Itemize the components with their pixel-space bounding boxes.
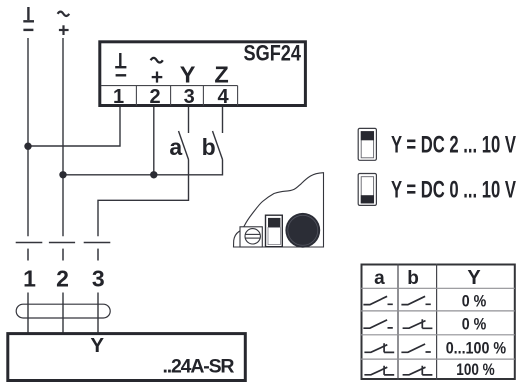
cable sheath oval [16, 304, 110, 318]
actuator knob [285, 213, 320, 248]
switch closed icon row3 col a [364, 343, 394, 352]
svg-text:SGF24: SGF24 [244, 41, 302, 66]
terminal strip line [101, 86, 238, 106]
wire 3 into box [97, 293, 99, 334]
svg-text:b: b [202, 134, 216, 160]
junction node wire1/terminal1 [24, 143, 31, 150]
svg-text:2: 2 [149, 86, 160, 108]
supply symbol AC plus (~ with +) [58, 12, 70, 35]
table frame [362, 265, 515, 380]
connector break wire 2 [49, 243, 75, 261]
actuator outline [234, 173, 324, 247]
svg-text:1: 1 [113, 86, 124, 108]
wire from terminal 4 [222, 107, 224, 133]
switch a blade [179, 131, 189, 160]
svg-text:Y = DC 0 ... 10 V: Y = DC 0 ... 10 V [391, 177, 516, 204]
connector break wire 3 [84, 243, 111, 261]
table row dividers [361, 288, 515, 359]
wire main 2 (from ~+ down) [62, 38, 64, 236]
device box SGF24 [100, 42, 306, 106]
dip switch icon up [358, 128, 376, 160]
wire 2 into box [62, 293, 64, 334]
supply symbol ground/neutral (⊥ with minus) [23, 7, 34, 30]
dip switch icon down [358, 174, 376, 206]
svg-text:Y: Y [180, 62, 196, 88]
switch closed icon row4 col a [364, 366, 394, 375]
svg-text:Z: Z [214, 62, 228, 88]
svg-text:Y = DC 2 ... 10 V: Y = DC 2 ... 10 V [391, 132, 516, 159]
wire from terminal 2 [153, 107, 155, 175]
switch b blade [213, 131, 223, 160]
table column dividers [398, 264, 437, 380]
actuator toggle switch [266, 215, 283, 247]
wire from terminal 1 [28, 107, 120, 146]
svg-text:a: a [169, 134, 182, 160]
switch open icon row3 col b [401, 344, 430, 352]
pin symbol ~+ above terminal 2 [151, 58, 163, 83]
svg-text:2: 2 [56, 265, 69, 291]
wire switch a to wire 3 [98, 160, 189, 237]
switch closed icon row2 col b [403, 319, 433, 328]
switch open icon row2 col a [363, 320, 392, 328]
junction node wire2 bus [59, 171, 66, 178]
actuator screw circle [245, 229, 260, 244]
svg-text:3: 3 [92, 265, 105, 291]
wire switch b to bus [63, 160, 223, 175]
wire 1 into box [27, 293, 29, 334]
svg-text:0 %: 0 % [462, 291, 487, 310]
connector break wire 1 [16, 243, 43, 261]
svg-text:Y: Y [90, 334, 104, 357]
svg-text:..24A-SR: ..24A-SR [163, 355, 235, 377]
svg-text:1: 1 [23, 265, 36, 291]
switch closed icon row4 col b [403, 366, 433, 375]
svg-text:b: b [407, 268, 419, 289]
svg-text:4: 4 [217, 86, 229, 108]
actuator screw box [240, 227, 262, 247]
svg-text:Y: Y [467, 267, 481, 289]
wire from terminal 3 [188, 107, 190, 133]
controller box ..24A-SR [8, 334, 246, 381]
svg-text:0 %: 0 % [462, 315, 487, 334]
junction node terminal2 bus [150, 171, 157, 178]
svg-text:a: a [374, 268, 385, 289]
svg-text:0...100 %: 0...100 % [446, 339, 506, 358]
svg-text:100 %: 100 % [456, 360, 494, 379]
pin symbol ⊥− above terminal 1 [115, 53, 126, 75]
svg-text:3: 3 [184, 86, 195, 108]
switch open icon row1 col a [363, 296, 392, 304]
wire main 1 (from ⊥ down) [27, 38, 29, 236]
switch open icon row1 col b [401, 296, 430, 304]
